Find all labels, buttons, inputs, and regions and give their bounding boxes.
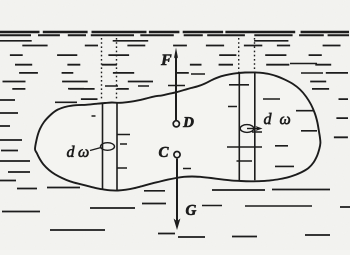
left prism dotted extension right xyxy=(116,38,118,101)
right prism dotted extension right xyxy=(254,38,256,73)
gravity force G arrow xyxy=(176,159,178,221)
G label xyxy=(186,205,196,215)
water surface third dash row xyxy=(0,40,288,42)
right prism dotted extension left xyxy=(238,38,240,73)
water surface top line xyxy=(0,31,349,33)
water surface second line xyxy=(0,34,349,36)
left prism side left xyxy=(102,103,104,190)
left prism side right xyxy=(116,102,118,190)
left d-omega label xyxy=(67,146,75,157)
right d-omega arrow xyxy=(247,128,258,130)
stray dashes near and inside body xyxy=(55,64,323,207)
buoyancy force F arrow xyxy=(175,56,177,121)
left prism cross-section ellipse xyxy=(101,143,115,151)
C label xyxy=(159,147,169,157)
water hatching dashes xyxy=(0,46,350,238)
right prism side right xyxy=(254,73,256,181)
centre of buoyancy D circle xyxy=(173,121,179,127)
left prism dotted extension left xyxy=(101,38,103,101)
floating body outline xyxy=(35,72,320,190)
right prism side left xyxy=(238,74,240,181)
right d-omega label xyxy=(264,113,272,124)
centre of gravity C circle xyxy=(174,152,180,158)
D label xyxy=(183,117,194,127)
right prism cross-section ellipse xyxy=(240,125,254,133)
left d-omega pointer xyxy=(90,148,101,151)
F label xyxy=(161,55,171,65)
